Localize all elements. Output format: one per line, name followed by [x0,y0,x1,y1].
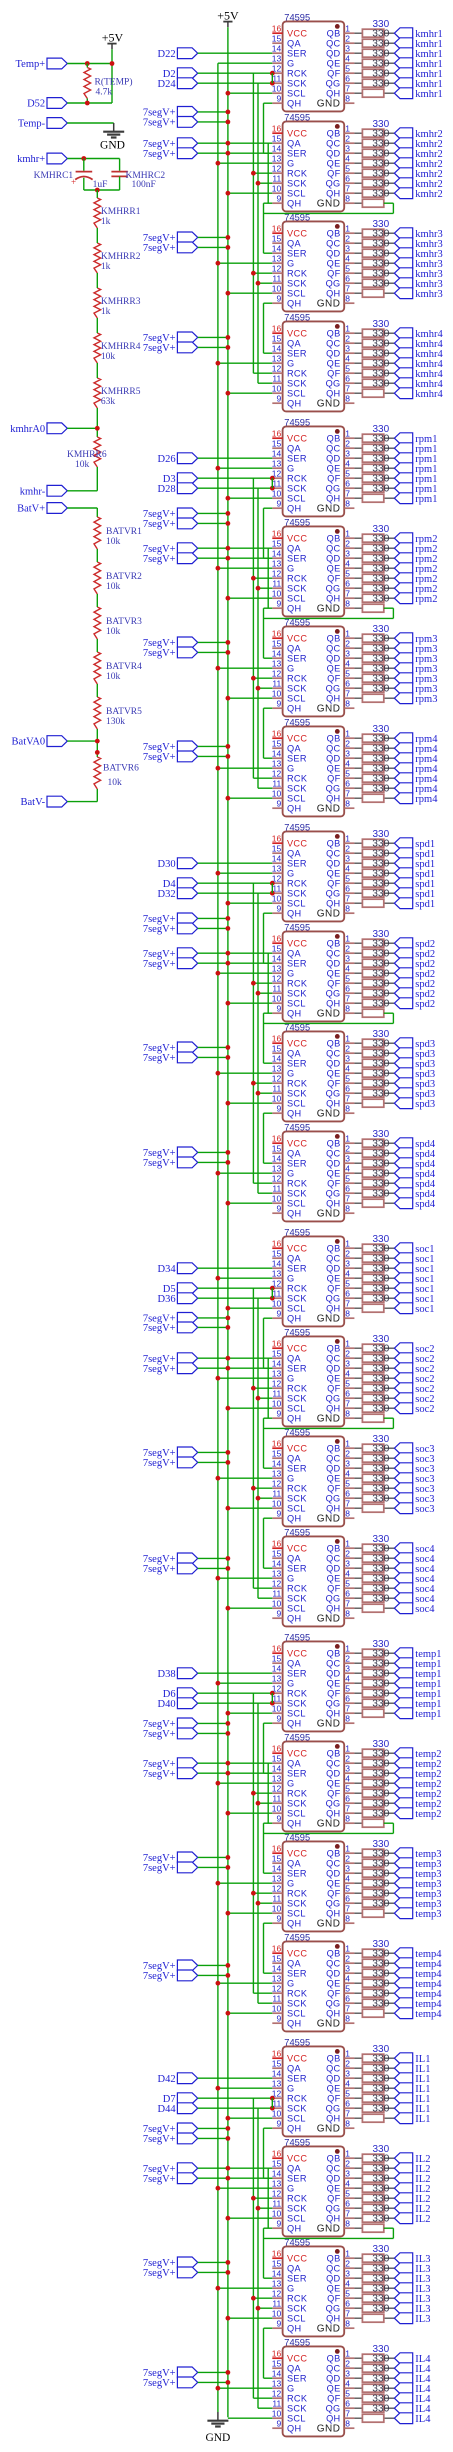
svg-text:QC: QC [326,949,340,959]
svg-text:SCK: SCK [287,889,307,899]
svg-text:QH: QH [326,2114,340,2124]
svg-text:RCK: RCK [287,1484,308,1494]
svg-text:QD: QD [326,349,340,359]
svg-text:2: 2 [345,1954,350,1964]
svg-text:14: 14 [272,244,282,254]
svg-text:1: 1 [345,429,350,439]
svg-text:SCL: SCL [287,1199,306,1209]
svg-text:4: 4 [345,1164,350,1174]
svg-text:2: 2 [345,134,350,144]
svg-text:QH: QH [287,704,301,714]
svg-text:8: 8 [345,2419,350,2429]
svg-text:16: 16 [272,1439,282,1449]
svg-text:5: 5 [345,1784,350,1794]
svg-text:RCK: RCK [287,2294,308,2304]
svg-text:5: 5 [345,769,350,779]
svg-text:QF: QF [327,774,340,784]
svg-text:14: 14 [272,344,282,354]
svg-text:G: G [287,1679,294,1689]
svg-text:9: 9 [276,799,281,809]
svg-text:1: 1 [345,1644,350,1654]
svg-text:QC: QC [326,1049,340,1059]
svg-text:QB: QB [327,1749,341,1759]
svg-text:330: 330 [372,1088,389,1099]
svg-text:10: 10 [272,284,282,294]
svg-text:QH: QH [326,2314,340,2324]
svg-text:7: 7 [345,1904,350,1914]
svg-text:13: 13 [272,1369,282,1379]
svg-text:1: 1 [345,324,350,334]
svg-text:QG: QG [326,1594,341,1604]
svg-text:2: 2 [345,2059,350,2069]
svg-text:2: 2 [345,844,350,854]
svg-text:11: 11 [272,1184,281,1194]
svg-text:QH: QH [287,1009,301,1019]
svg-text:QE: QE [327,664,341,674]
svg-text:1: 1 [345,24,350,34]
svg-text:16: 16 [272,2149,282,2159]
svg-text:330: 330 [372,1293,389,1304]
svg-text:8: 8 [345,94,350,104]
svg-text:11: 11 [272,2199,281,2209]
svg-text:7: 7 [345,84,350,94]
svg-text:QH: QH [287,1314,301,1324]
svg-text:QF: QF [327,674,340,684]
svg-text:1: 1 [345,1744,350,1754]
svg-text:VCC: VCC [287,1749,307,1759]
svg-text:QF: QF [327,1789,340,1799]
svg-text:RCK: RCK [287,1889,308,1899]
svg-text:2: 2 [345,2359,350,2369]
svg-text:SER: SER [287,2374,307,2384]
svg-text:KMHRC1: KMHRC1 [34,171,74,181]
svg-text:QB: QB [327,1949,341,1959]
svg-text:6: 6 [345,274,350,284]
svg-text:15: 15 [272,439,282,449]
svg-text:SCL: SCL [287,1504,306,1514]
svg-text:QB: QB [327,939,341,949]
svg-text:soc1: soc1 [415,1304,434,1315]
svg-text:11: 11 [272,1589,281,1599]
svg-text:SCK: SCK [287,1294,307,1304]
svg-text:15: 15 [272,1249,282,1259]
svg-text:SER: SER [287,249,307,259]
svg-text:GND: GND [317,1209,341,1220]
svg-text:1: 1 [345,529,350,539]
svg-text:9: 9 [276,1409,281,1419]
svg-text:SCL: SCL [287,999,306,1009]
svg-text:15: 15 [272,639,282,649]
svg-text:SCL: SCL [287,1909,306,1919]
svg-text:VCC: VCC [287,734,307,744]
svg-text:330: 330 [372,78,389,89]
svg-text:330: 330 [372,783,389,794]
svg-text:7: 7 [345,384,350,394]
svg-text:10: 10 [272,994,282,1004]
svg-text:BatV-: BatV- [20,797,45,808]
svg-text:QG: QG [326,1089,341,1099]
svg-text:QE: QE [327,2084,341,2094]
svg-text:QE: QE [327,1069,341,1079]
svg-text:temp2: temp2 [415,1809,441,1820]
svg-text:8: 8 [345,1309,350,1319]
svg-text:SCK: SCK [287,2404,307,2414]
svg-text:QA: QA [287,544,301,554]
svg-text:8: 8 [345,799,350,809]
svg-text:13: 13 [272,54,282,64]
svg-text:RCK: RCK [287,774,308,784]
svg-text:QB: QB [327,1649,341,1659]
svg-text:11: 11 [272,374,281,384]
svg-text:SER: SER [287,1464,307,1474]
svg-text:QG: QG [326,1494,341,1504]
svg-text:VCC: VCC [287,1649,307,1659]
svg-text:SCK: SCK [287,1999,307,2009]
svg-text:6: 6 [345,779,350,789]
svg-text:QB: QB [327,1244,341,1254]
svg-text:RCK: RCK [287,269,308,279]
svg-text:QG: QG [326,2204,341,2214]
svg-text:QA: QA [287,1354,301,1364]
svg-text:G: G [287,1069,294,1079]
svg-text:SCL: SCL [287,694,306,704]
svg-text:12: 12 [272,1884,282,1894]
svg-text:63k: 63k [101,397,116,407]
svg-text:BatVA0: BatVA0 [12,737,46,748]
svg-text:5: 5 [345,974,350,984]
svg-text:D24: D24 [158,79,177,90]
svg-text:15: 15 [272,1044,282,1054]
svg-text:QH: QH [287,2019,301,2029]
svg-text:D32: D32 [158,889,176,900]
svg-text:D52: D52 [27,99,45,110]
svg-text:8: 8 [345,2319,350,2329]
svg-text:QD: QD [326,959,340,969]
svg-text:QE: QE [327,1979,341,1989]
svg-text:QB: QB [327,329,341,339]
svg-text:SCL: SCL [287,594,306,604]
svg-text:QH: QH [326,1304,340,1314]
svg-text:QG: QG [326,379,341,389]
svg-text:D42: D42 [158,2074,176,2085]
svg-text:QG: QG [326,2304,341,2314]
svg-text:2: 2 [345,234,350,244]
svg-text:GND: GND [317,1919,341,1930]
svg-text:GND: GND [317,1414,341,1425]
svg-text:QC: QC [326,1859,340,1869]
svg-text:QF: QF [327,474,340,484]
svg-text:QF: QF [327,1179,340,1189]
svg-text:8: 8 [345,1714,350,1724]
svg-text:GND: GND [317,1109,341,1120]
svg-text:QE: QE [327,764,341,774]
svg-text:SCK: SCK [287,684,307,694]
svg-text:6: 6 [345,1589,350,1599]
svg-text:15: 15 [272,334,282,344]
svg-text:SCL: SCL [287,1809,306,1819]
svg-text:5: 5 [345,364,350,374]
svg-text:7segV+: 7segV+ [143,1158,176,1169]
svg-text:330: 330 [372,1998,389,2009]
svg-text:QC: QC [326,39,340,49]
svg-text:GND: GND [317,399,341,410]
svg-text:QH: QH [287,504,301,514]
svg-text:15: 15 [272,1349,282,1359]
svg-text:QE: QE [327,869,341,879]
svg-text:VCC: VCC [287,1949,307,1959]
svg-text:G: G [287,764,294,774]
svg-text:QC: QC [326,2264,340,2274]
svg-text:1: 1 [345,2049,350,2059]
svg-text:QC: QC [326,1149,340,1159]
svg-text:QF: QF [327,979,340,989]
svg-text:14: 14 [272,1154,282,1164]
svg-text:RCK: RCK [287,69,308,79]
svg-text:QG: QG [326,684,341,694]
svg-text:BATVR3: BATVR3 [106,617,142,627]
svg-text:6: 6 [345,174,350,184]
svg-text:D30: D30 [158,859,176,870]
svg-text:QH: QH [326,389,340,399]
svg-text:RCK: RCK [287,1079,308,1089]
svg-text:G: G [287,664,294,674]
svg-text:SER: SER [287,554,307,564]
svg-text:QB: QB [327,2154,341,2164]
svg-text:QH: QH [326,594,340,604]
svg-text:4: 4 [345,154,350,164]
svg-text:SCK: SCK [287,584,307,594]
svg-text:10: 10 [272,2209,282,2219]
svg-text:11: 11 [272,174,281,184]
svg-text:QC: QC [326,644,340,654]
svg-text:7: 7 [345,1299,350,1309]
svg-text:D34: D34 [158,1264,177,1275]
svg-text:KMHRR2: KMHRR2 [101,252,141,262]
svg-text:SER: SER [287,754,307,764]
svg-text:9: 9 [276,1814,281,1824]
svg-text:SCK: SCK [287,1799,307,1809]
svg-text:QH: QH [287,399,301,409]
svg-text:9: 9 [276,194,281,204]
svg-text:QG: QG [326,889,341,899]
svg-text:QH: QH [287,1514,301,1524]
svg-text:GND: GND [317,504,341,515]
svg-text:7segV+: 7segV+ [143,519,176,530]
svg-text:QE: QE [327,159,341,169]
svg-text:rpm2: rpm2 [415,594,437,605]
svg-text:GND: GND [205,2432,230,2444]
svg-text:BATVR1: BATVR1 [106,527,142,537]
svg-text:1: 1 [345,1439,350,1449]
svg-text:330: 330 [372,593,389,604]
svg-text:QH: QH [287,1819,301,1829]
svg-text:12: 12 [272,1984,282,1994]
svg-text:1: 1 [345,224,350,234]
svg-text:5: 5 [345,1174,350,1184]
svg-text:13: 13 [272,2279,282,2289]
svg-text:SER: SER [287,454,307,464]
svg-text:QA: QA [287,849,301,859]
svg-text:6: 6 [345,479,350,489]
svg-text:12: 12 [272,2189,282,2199]
svg-text:16: 16 [272,529,282,539]
svg-text:8: 8 [345,1509,350,1519]
svg-text:11: 11 [272,984,281,994]
svg-text:GND: GND [317,299,341,310]
svg-text:QF: QF [327,1284,340,1294]
svg-text:Temp-: Temp- [18,119,46,130]
svg-text:15: 15 [272,234,282,244]
svg-text:G: G [287,564,294,574]
svg-text:QF: QF [327,1079,340,1089]
svg-text:QE: QE [327,1474,341,1484]
svg-text:9: 9 [276,1004,281,1014]
svg-text:G: G [287,2284,294,2294]
svg-text:SCL: SCL [287,1304,306,1314]
svg-text:11: 11 [272,274,281,284]
svg-text:VCC: VCC [287,1444,307,1454]
svg-text:QA: QA [287,1859,301,1869]
svg-text:SER: SER [287,2274,307,2284]
svg-text:3: 3 [345,2369,350,2379]
svg-text:10: 10 [272,184,282,194]
svg-text:QC: QC [326,1454,340,1464]
svg-text:14: 14 [272,2269,282,2279]
svg-text:QB: QB [327,734,341,744]
svg-text:3: 3 [345,1664,350,1674]
svg-text:QE: QE [327,1374,341,1384]
svg-text:QC: QC [326,239,340,249]
svg-text:QH: QH [287,2424,301,2434]
svg-text:11: 11 [272,1489,281,1499]
svg-text:QD: QD [326,754,340,764]
svg-text:13: 13 [272,1569,282,1579]
svg-text:6: 6 [345,1994,350,2004]
svg-text:SCL: SCL [287,494,306,504]
svg-text:QF: QF [327,369,340,379]
svg-text:8: 8 [345,904,350,914]
svg-text:330: 330 [372,278,389,289]
svg-text:3: 3 [345,954,350,964]
svg-text:13: 13 [272,1469,282,1479]
svg-text:15: 15 [272,1854,282,1864]
svg-text:SCL: SCL [287,2214,306,2224]
svg-text:QB: QB [327,2054,341,2064]
svg-text:kmhr2: kmhr2 [415,189,442,200]
svg-text:RCK: RCK [287,2394,308,2404]
svg-text:4: 4 [345,2279,350,2289]
svg-text:kmhr4: kmhr4 [415,389,443,400]
svg-text:G: G [287,969,294,979]
svg-text:16: 16 [272,1844,282,1854]
svg-text:8: 8 [345,2014,350,2024]
svg-text:SCK: SCK [287,1494,307,1504]
svg-text:6: 6 [345,1389,350,1399]
svg-text:9: 9 [276,2319,281,2329]
svg-text:7segV+: 7segV+ [143,243,176,254]
svg-text:7: 7 [345,489,350,499]
svg-text:QG: QG [326,179,341,189]
svg-text:5: 5 [345,669,350,679]
svg-text:temp3: temp3 [415,1909,441,1920]
svg-text:GND: GND [317,2424,341,2435]
svg-text:10k: 10k [106,627,121,637]
svg-text:1: 1 [345,124,350,134]
svg-text:QF: QF [327,1689,340,1699]
svg-text:GND: GND [317,2019,341,2030]
svg-text:kmhr-: kmhr- [20,486,46,497]
svg-text:QA: QA [287,644,301,654]
svg-text:SER: SER [287,349,307,359]
svg-text:16: 16 [272,1239,282,1249]
svg-text:330: 330 [372,483,389,494]
svg-text:SER: SER [287,1264,307,1274]
svg-text:QH: QH [326,694,340,704]
svg-text:7segV+: 7segV+ [143,1364,176,1375]
svg-text:VCC: VCC [287,1344,307,1354]
svg-text:GND: GND [317,1614,341,1625]
svg-text:10k: 10k [106,582,121,592]
svg-text:2: 2 [345,34,350,44]
svg-text:VCC: VCC [287,839,307,849]
svg-text:5: 5 [345,874,350,884]
svg-text:2: 2 [345,2259,350,2269]
svg-text:13: 13 [272,964,282,974]
svg-text:7: 7 [345,284,350,294]
svg-text:5: 5 [345,164,350,174]
svg-text:7segV+: 7segV+ [143,2268,176,2279]
svg-text:VCC: VCC [287,1849,307,1859]
svg-text:VCC: VCC [287,2354,307,2364]
svg-text:7segV+: 7segV+ [143,1971,176,1982]
svg-text:QG: QG [326,2404,341,2414]
svg-text:QA: QA [287,949,301,959]
svg-text:13: 13 [272,559,282,569]
svg-text:1: 1 [345,834,350,844]
svg-text:QA: QA [287,1049,301,1059]
svg-text:14: 14 [272,1459,282,1469]
svg-text:VCC: VCC [287,1544,307,1554]
svg-text:1: 1 [345,1034,350,1044]
svg-text:D22: D22 [158,49,176,60]
svg-text:SCK: SCK [287,179,307,189]
svg-text:9: 9 [276,1104,281,1114]
svg-text:SER: SER [287,2174,307,2184]
svg-text:10: 10 [272,1499,282,1509]
svg-text:3: 3 [345,1964,350,1974]
svg-text:10k: 10k [106,537,121,547]
svg-text:4: 4 [345,1569,350,1579]
svg-text:7segV+: 7segV+ [143,752,176,763]
svg-text:7: 7 [345,1599,350,1609]
svg-text:3: 3 [345,1259,350,1269]
svg-text:SCL: SCL [287,2009,306,2019]
svg-text:SER: SER [287,2074,307,2084]
svg-text:QH: QH [326,2214,340,2224]
svg-text:9: 9 [276,1714,281,1724]
svg-text:16: 16 [272,2049,282,2059]
svg-text:3: 3 [345,1154,350,1164]
svg-text:QH: QH [326,1199,340,1209]
svg-text:14: 14 [272,2169,282,2179]
svg-text:IL4: IL4 [415,2414,431,2425]
svg-text:13: 13 [272,1269,282,1279]
svg-text:7segV+: 7segV+ [143,554,176,565]
svg-text:BatV+: BatV+ [17,504,45,515]
svg-text:SER: SER [287,859,307,869]
svg-text:5: 5 [345,1684,350,1694]
svg-text:QE: QE [327,359,341,369]
